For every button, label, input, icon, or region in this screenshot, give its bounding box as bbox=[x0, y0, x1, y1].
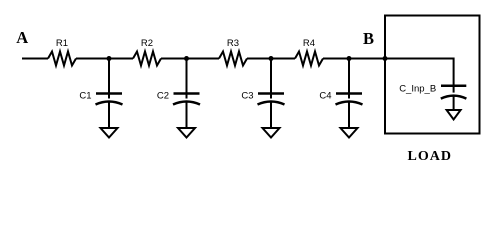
wire: load corner down bbox=[453, 58, 455, 93]
ground of C1 bbox=[101, 128, 118, 138]
node junction J4 bbox=[347, 56, 352, 61]
resistor R2 bbox=[133, 52, 161, 66]
capacitor C_Inp_B bbox=[399, 83, 466, 111]
resistor R1 bbox=[48, 52, 76, 66]
wire: R1 to R2 bbox=[76, 58, 133, 60]
svg-text:R4: R4 bbox=[303, 38, 315, 49]
svg-text:A: A bbox=[16, 28, 28, 47]
svg-text:C2: C2 bbox=[157, 91, 169, 102]
capacitor C2 bbox=[157, 59, 200, 130]
wire: R2 to R3 bbox=[161, 58, 219, 60]
svg-text:C1: C1 bbox=[79, 91, 91, 102]
ground of C3 bbox=[263, 128, 280, 138]
svg-text:C_Inp_B: C_Inp_B bbox=[399, 83, 436, 94]
ground of C4 bbox=[341, 128, 358, 138]
svg-text:C3: C3 bbox=[241, 91, 253, 102]
ground of C2 bbox=[178, 128, 195, 138]
capacitor C4 bbox=[319, 59, 362, 130]
wire: B into load bbox=[385, 58, 454, 60]
resistor R4 bbox=[295, 52, 323, 66]
resistor R3 bbox=[219, 52, 247, 66]
wire: R4 to node B bbox=[323, 58, 385, 60]
svg-text:LOAD: LOAD bbox=[408, 149, 452, 164]
svg-text:R1: R1 bbox=[56, 38, 68, 49]
wire: R3 to R4 bbox=[247, 58, 295, 60]
svg-text:C4: C4 bbox=[319, 91, 331, 102]
node junction J3 bbox=[269, 56, 274, 61]
capacitor C3 bbox=[241, 59, 284, 130]
node junction B bbox=[383, 56, 388, 61]
ground of C_Inp_B bbox=[447, 110, 461, 120]
svg-text:R2: R2 bbox=[141, 38, 153, 49]
wire: A lead-in to R1 bbox=[22, 58, 48, 60]
svg-text:R3: R3 bbox=[227, 38, 239, 49]
node junction J1 bbox=[107, 56, 112, 61]
capacitor C1 bbox=[79, 59, 122, 130]
svg-text:B: B bbox=[363, 29, 374, 48]
node junction J2 bbox=[184, 56, 189, 61]
LOAD box bbox=[385, 16, 480, 134]
